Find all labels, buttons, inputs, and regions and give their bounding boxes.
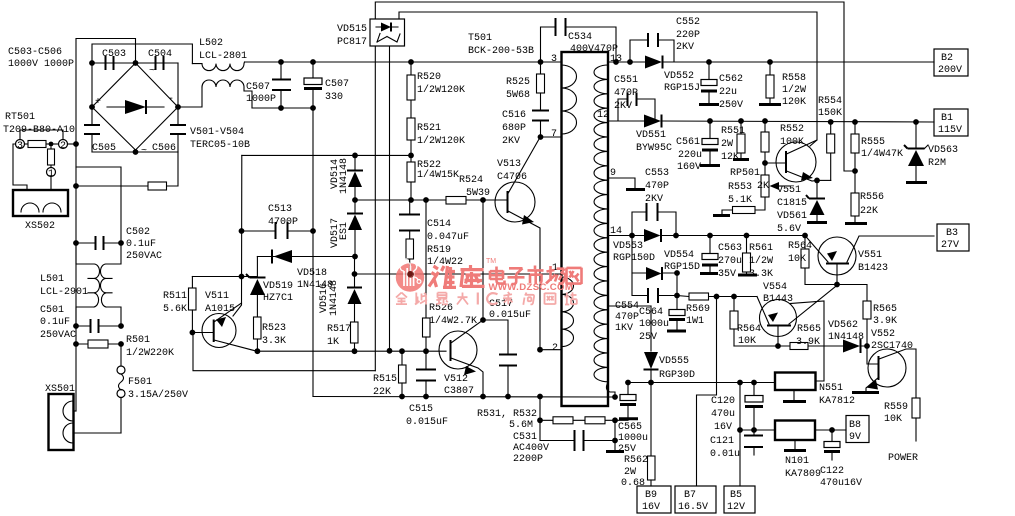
wire B5 down: [739, 430, 741, 486]
svg-text:R556: R556: [860, 192, 884, 203]
svg-text:R531,: R531,: [477, 409, 507, 420]
bridge rectifier V501-V504 diamond: [92, 63, 178, 157]
wire VD519 link: [242, 276, 258, 278]
zener VD519 HZ7C1: [246, 257, 293, 318]
label C503-C506 values: [8, 47, 74, 70]
resistor R564 lower: [730, 297, 761, 348]
capacitor C503: [102, 49, 126, 70]
node R522 bottom: [408, 197, 414, 203]
resistor R521: [407, 118, 465, 155]
svg-text:PC817: PC817: [337, 37, 367, 48]
svg-text:R525: R525: [506, 77, 530, 88]
svg-text:220u: 220u: [678, 150, 702, 161]
svg-text:C503-C506: C503-C506: [8, 47, 62, 58]
node V554 base: [775, 343, 781, 349]
resistor R569: [677, 293, 757, 327]
svg-text:TERC05-10B: TERC05-10B: [190, 140, 250, 151]
wire opto bottom pin right: [389, 46, 391, 351]
svg-text:2W: 2W: [624, 467, 636, 478]
thermistor RT501 network: [13, 130, 76, 190]
svg-text:2: 2: [552, 343, 558, 354]
node R511 feed: [239, 274, 245, 280]
svg-text:B9: B9: [645, 490, 657, 501]
svg-text:3: 3: [551, 54, 557, 65]
svg-text:HZ7C1: HZ7C1: [263, 293, 293, 304]
wire opto bottom pin left: [374, 46, 376, 371]
svg-text:120K: 120K: [782, 97, 806, 108]
capacitor C563: [700, 233, 742, 280]
node rail V513e: [537, 394, 543, 400]
svg-text:VD518: VD518: [297, 268, 327, 279]
wire N551 out up: [790, 301, 824, 381]
svg-text:150K: 150K: [818, 108, 842, 119]
svg-text:25V: 25V: [618, 444, 636, 455]
capacitor C505: [84, 107, 116, 154]
wire pin7: [541, 136, 562, 138]
svg-text:R551: R551: [721, 126, 745, 137]
capacitor C506: [152, 107, 186, 154]
svg-text:0.1uF: 0.1uF: [40, 317, 70, 328]
svg-text:C503: C503: [102, 49, 126, 60]
capacitor C514: [399, 200, 469, 243]
resistor R554: [818, 96, 842, 180]
svg-text:2KV: 2KV: [502, 136, 520, 147]
node R515 top: [399, 348, 405, 354]
svg-text:R553: R553: [728, 182, 752, 193]
svg-text:R561: R561: [749, 243, 773, 254]
svg-text:5.1K: 5.1K: [728, 195, 752, 206]
svg-text:C514: C514: [427, 219, 451, 230]
capacitor C507 330: [304, 59, 349, 111]
svg-text:R520: R520: [417, 72, 441, 83]
svg-text:R521: R521: [417, 123, 441, 134]
svg-text:R564: R564: [737, 324, 761, 335]
resistor R565 vertical: [863, 301, 897, 345]
svg-text:9V: 9V: [849, 432, 861, 443]
svg-text:C553: C553: [645, 168, 669, 179]
wire secondary 16V tap: [608, 305, 651, 307]
watermark big char ku: [461, 265, 485, 288]
svg-text:5W68: 5W68: [506, 90, 530, 101]
svg-text:3.3K: 3.3K: [262, 336, 286, 347]
node V552 base: [864, 343, 870, 349]
T501 feedback winding pins 1-2: [552, 263, 574, 354]
svg-text:V554: V554: [763, 282, 787, 293]
svg-text:160V: 160V: [677, 162, 701, 173]
svg-text:B7: B7: [684, 490, 696, 501]
svg-text:12V: 12V: [727, 502, 745, 513]
transistor V511 A1015: [190, 291, 257, 351]
svg-text:RP501: RP501: [730, 168, 760, 179]
svg-text:1/4W15K: 1/4W15K: [417, 169, 459, 181]
svg-text:470P: 470P: [614, 88, 638, 99]
svg-text:3.15A/250V: 3.15A/250V: [128, 389, 188, 401]
svg-text:1000u: 1000u: [618, 433, 648, 444]
svg-text:1000P: 1000P: [246, 94, 276, 105]
svg-text:1N4148: 1N4148: [828, 332, 864, 343]
svg-text:1N4148: 1N4148: [329, 280, 340, 316]
svg-text:1/2W120K: 1/2W120K: [417, 135, 465, 147]
svg-text:470u16V: 470u16V: [820, 478, 862, 489]
box B7 16.5V: [675, 486, 716, 513]
resistor R558: [759, 59, 806, 108]
box B9 16V: [637, 486, 671, 513]
watermark char chang: [546, 266, 565, 284]
wire opto pin to top rail A: [375, 2, 855, 171]
potentiometer RP501: [728, 163, 790, 210]
svg-text:2K: 2K: [757, 181, 769, 192]
svg-text:~: ~: [149, 66, 155, 77]
label L501: [40, 274, 88, 298]
svg-text:220P: 220P: [676, 30, 700, 41]
watermark disc logo: [396, 259, 424, 292]
svg-text:V551: V551: [777, 185, 801, 196]
node V512 collector: [480, 317, 486, 323]
svg-text:R517: R517: [327, 324, 351, 335]
svg-text:V501-V504: V501-V504: [190, 127, 244, 138]
svg-text:V511: V511: [205, 291, 229, 302]
svg-text:250VAC: 250VAC: [40, 330, 76, 341]
svg-text:2: 2: [60, 141, 66, 152]
watermark slogan da: [457, 293, 468, 305]
capacitor C504: [148, 49, 172, 70]
resistor R501: [73, 335, 174, 359]
transistor V552 2SC1740: [852, 329, 916, 398]
wire upper loop to L502: [92, 44, 192, 64]
wire y155 row: [242, 154, 410, 156]
node opto right pin: [387, 348, 393, 354]
resistor R519: [406, 239, 463, 277]
svg-text:C121: C121: [710, 436, 734, 447]
watermark big char wei: [429, 266, 456, 287]
svg-text:115V: 115V: [938, 125, 962, 136]
wire top loop to bridge ~1: [76, 39, 136, 145]
resistor R511: [163, 277, 196, 333]
resistor (degauss series): [148, 182, 167, 190]
svg-text:B3: B3: [946, 228, 958, 239]
resistor R524: [446, 175, 490, 204]
diode VD516: [319, 257, 362, 323]
svg-text:VD553: VD553: [613, 241, 643, 252]
svg-text:VD551: VD551: [636, 130, 666, 141]
resistor R564 upper: [788, 236, 837, 285]
svg-text:R555: R555: [861, 137, 885, 148]
svg-text:1000V 1000P: 1000V 1000P: [8, 59, 74, 70]
node V513 emitter pin2: [537, 347, 543, 353]
svg-text:R562: R562: [624, 455, 648, 466]
svg-text:12: 12: [597, 110, 609, 121]
svg-text:3.9K: 3.9K: [873, 316, 897, 327]
svg-text:0.015uF: 0.015uF: [489, 310, 531, 321]
node rail C517: [505, 394, 511, 400]
svg-text:C4706: C4706: [497, 172, 527, 183]
capacitor C122: [820, 430, 862, 489]
capacitor C501: [40, 305, 124, 341]
svg-text:V512: V512: [444, 374, 468, 385]
node cap row left: [89, 60, 95, 66]
node RT501 to column: [73, 141, 79, 147]
transformer T501 core box: [562, 52, 609, 406]
svg-text:470u: 470u: [711, 409, 735, 420]
capacitor C565: [615, 383, 648, 456]
svg-text:2200P: 2200P: [513, 454, 543, 465]
svg-text:B8: B8: [849, 420, 861, 431]
diode VD551 BYW95C: [608, 115, 934, 155]
svg-text:RGP30D: RGP30D: [659, 370, 695, 381]
wire y167 link: [76, 167, 121, 243]
svg-text:KA7812: KA7812: [819, 396, 855, 407]
svg-text:VD552: VD552: [664, 71, 694, 82]
svg-text:C552: C552: [676, 17, 700, 28]
capacitor C507 1000P: [246, 59, 291, 111]
svg-text:R515: R515: [373, 374, 397, 385]
svg-text:470P: 470P: [645, 181, 669, 192]
svg-text:C565: C565: [618, 422, 642, 433]
svg-text:-: -: [168, 94, 174, 105]
transistor V551 C1815: [765, 140, 817, 209]
svg-text:C122: C122: [820, 466, 844, 477]
transistor V551 B1423: [802, 233, 934, 285]
node V551b base: [834, 282, 840, 288]
watermark slogan qiu: [415, 293, 427, 305]
wire R511 feed row: [192, 276, 241, 278]
wire bridge bottom row: [92, 151, 178, 153]
svg-text:XS501: XS501: [45, 384, 75, 395]
svg-text:22u: 22u: [719, 87, 737, 98]
diode VD518: [272, 250, 333, 292]
diode VD552 RGP15J: [630, 56, 934, 95]
node rail R515: [399, 394, 405, 400]
resistor R551: [721, 118, 749, 163]
svg-text:5W39: 5W39: [466, 188, 490, 199]
wire bridge cap row: [92, 62, 178, 64]
capacitor C561: [676, 118, 720, 173]
node rail right: [612, 394, 618, 400]
svg-text:V552: V552: [871, 329, 895, 340]
svg-text:2W: 2W: [721, 139, 733, 150]
resistor R552: [761, 118, 804, 166]
watermark char zi: [508, 268, 525, 284]
inductor L502 upper winding: [192, 62, 244, 71]
svg-text:R519: R519: [427, 245, 451, 256]
wire R554 to emitter: [817, 179, 831, 181]
inductor L502 lower winding: [202, 80, 252, 108]
svg-text:R565: R565: [873, 304, 897, 315]
svg-text:0.047uF: 0.047uF: [427, 232, 469, 243]
svg-text:35V: 35V: [718, 269, 736, 280]
capacitor C551: [614, 75, 655, 121]
svg-text:10K: 10K: [738, 336, 756, 347]
svg-text:V513: V513: [497, 159, 521, 170]
wire N101 out: [815, 429, 846, 431]
node VD561 top: [814, 178, 820, 184]
box B8 9V: [846, 416, 869, 444]
resistor R515: [373, 351, 406, 398]
svg-text:C516: C516: [502, 110, 526, 121]
svg-text:12K: 12K: [721, 152, 739, 163]
optocoupler VD515 PC817: [370, 19, 405, 46]
capacitor C531: [513, 420, 618, 465]
wire y256 row: [257, 256, 355, 258]
svg-text:WWW.DZSC.COM: WWW.DZSC.COM: [489, 282, 574, 293]
diode VD555 RGP30D: [644, 306, 696, 383]
svg-text:R558: R558: [782, 73, 806, 84]
diode VD562 1N4148: [828, 320, 864, 353]
svg-text:C515: C515: [409, 404, 433, 415]
svg-text:L502: L502: [199, 38, 223, 49]
svg-text:7: 7: [551, 129, 557, 140]
zener VD561 5.6V: [777, 180, 827, 235]
wire rail 16V y382: [628, 382, 775, 384]
node R526 top: [423, 197, 429, 203]
svg-text:N551: N551: [819, 383, 843, 394]
svg-text:C1815: C1815: [777, 198, 807, 209]
svg-text:22K: 22K: [860, 206, 878, 217]
resistor R562: [621, 383, 655, 490]
node C534 right: [613, 59, 619, 65]
node bridge bottom: [133, 149, 139, 155]
svg-text:0.1uF: 0.1uF: [126, 239, 156, 250]
svg-text:R523: R523: [262, 323, 286, 334]
capacitor C120: [711, 380, 763, 433]
svg-text:A1015: A1015: [205, 304, 235, 315]
svg-text:C563: C563: [718, 243, 742, 254]
svg-text:0.68: 0.68: [621, 478, 645, 489]
resistor R523: [254, 317, 287, 351]
watermark slogan quan: [396, 293, 407, 305]
label V501-V504: [190, 127, 250, 151]
svg-text:5.6M: 5.6M: [509, 420, 533, 431]
capacitor C552: [627, 17, 700, 65]
svg-text:1000u: 1000u: [639, 319, 669, 330]
svg-text:T501: T501: [468, 33, 492, 44]
svg-text:2SC1740: 2SC1740: [871, 341, 913, 352]
resistor R525: [506, 59, 545, 110]
svg-text:C3807: C3807: [444, 386, 474, 397]
svg-text:AC400V: AC400V: [513, 443, 549, 454]
wire pin2 row: [540, 349, 562, 351]
node bridge left: [89, 104, 95, 110]
svg-text:RT501: RT501: [5, 112, 35, 123]
wire bottom rail y396: [313, 396, 615, 399]
node B7 drop: [714, 294, 720, 300]
watermark slogan wang2: [545, 293, 556, 304]
svg-text:3.3K: 3.3K: [749, 269, 773, 280]
svg-text:R564: R564: [788, 241, 812, 252]
node R564 lower top: [731, 294, 737, 300]
resistor R559: [884, 398, 920, 441]
node R523 bottom: [255, 348, 261, 354]
svg-text:B5: B5: [730, 490, 742, 501]
wire y274 row pin1: [355, 273, 562, 275]
wire opto pin to top rail B: [399, 12, 817, 146]
node B5 branch top: [737, 380, 743, 386]
svg-text:VD561: VD561: [777, 211, 807, 222]
watermark slogan zui: [436, 293, 448, 305]
wire bridge left leg: [91, 63, 93, 107]
svg-text:250VAC: 250VAC: [126, 251, 162, 262]
inductor L501 common-mode choke: [76, 243, 121, 326]
wire opto pin left turn: [193, 333, 375, 371]
node y186: [73, 183, 79, 189]
svg-text:C562: C562: [719, 74, 743, 85]
svg-text:POWER: POWER: [888, 453, 918, 464]
capacitor C513: [239, 204, 316, 239]
svg-text:2KV: 2KV: [614, 101, 632, 112]
box B2 200V: [934, 49, 968, 76]
svg-text:RGP150D: RGP150D: [613, 253, 655, 264]
wire primary 0V column x313: [312, 108, 314, 397]
watermark slogan cai: [503, 292, 513, 305]
node diode row y256: [352, 254, 358, 260]
svg-text:C502: C502: [126, 227, 150, 238]
svg-text:1/2W: 1/2W: [782, 84, 806, 96]
svg-text:1/2W120K: 1/2W120K: [417, 84, 465, 96]
resistors R531 R532: [537, 397, 618, 424]
resistor R526: [423, 200, 478, 354]
svg-text:C507: C507: [246, 82, 270, 93]
svg-text:3.9K: 3.9K: [796, 337, 820, 348]
wire y186 row: [76, 152, 178, 186]
resistor R553: [713, 207, 755, 216]
svg-text:VD555: VD555: [659, 356, 689, 367]
svg-text:V551: V551: [858, 250, 882, 261]
transistor V513 C4706: [483, 137, 541, 350]
watermark char dian: [490, 267, 505, 284]
svg-text:R524: R524: [459, 175, 483, 186]
wire V511 collector column: [233, 155, 242, 316]
svg-text:10K: 10K: [788, 254, 806, 265]
box B5 12V: [724, 486, 755, 513]
svg-text:XS502: XS502: [25, 221, 55, 232]
T501 secondary winding: [594, 54, 622, 397]
svg-text:16V: 16V: [642, 502, 660, 513]
svg-text:R532: R532: [513, 409, 537, 420]
wire y200 row: [355, 199, 507, 201]
svg-text:F501: F501: [128, 377, 152, 388]
wire lower bus y108: [252, 107, 313, 109]
capacitor C516: [502, 110, 549, 147]
svg-text:LCL-2801: LCL-2801: [199, 51, 247, 62]
svg-text:250V: 250V: [719, 100, 743, 111]
T501 primary winding pins 3-7: [551, 54, 577, 140]
wire y351 row: [257, 350, 446, 352]
ground primary-secondary node: [606, 441, 624, 452]
watermark slogan C: [487, 293, 497, 304]
wire pin9 ground: [608, 178, 645, 190]
svg-text:RGP15J: RGP15J: [664, 83, 700, 94]
svg-text:VD519: VD519: [263, 281, 293, 292]
zener VD563 R2M: [904, 119, 958, 182]
svg-text:VD562: VD562: [828, 320, 858, 331]
wire column to XS501: [75, 344, 77, 411]
capacitor C553: [632, 168, 676, 236]
svg-text:0.01u: 0.01u: [710, 449, 740, 460]
svg-text:2KV: 2KV: [645, 194, 663, 205]
box B1 115V: [934, 109, 968, 136]
svg-text:R501: R501: [126, 335, 150, 346]
diode VD554 RGP15D: [632, 236, 700, 281]
node VD514 VD517: [352, 197, 358, 203]
svg-text:C501: C501: [40, 305, 64, 316]
svg-text:R565: R565: [797, 324, 821, 335]
svg-text:3: 3: [17, 141, 23, 152]
wire AC column left: [75, 144, 77, 344]
svg-text:1/4W22: 1/4W22: [427, 256, 463, 268]
svg-text:270u: 270u: [718, 256, 742, 267]
wire main DC rail y62: [245, 61, 562, 63]
svg-text:2KV: 2KV: [676, 42, 694, 53]
